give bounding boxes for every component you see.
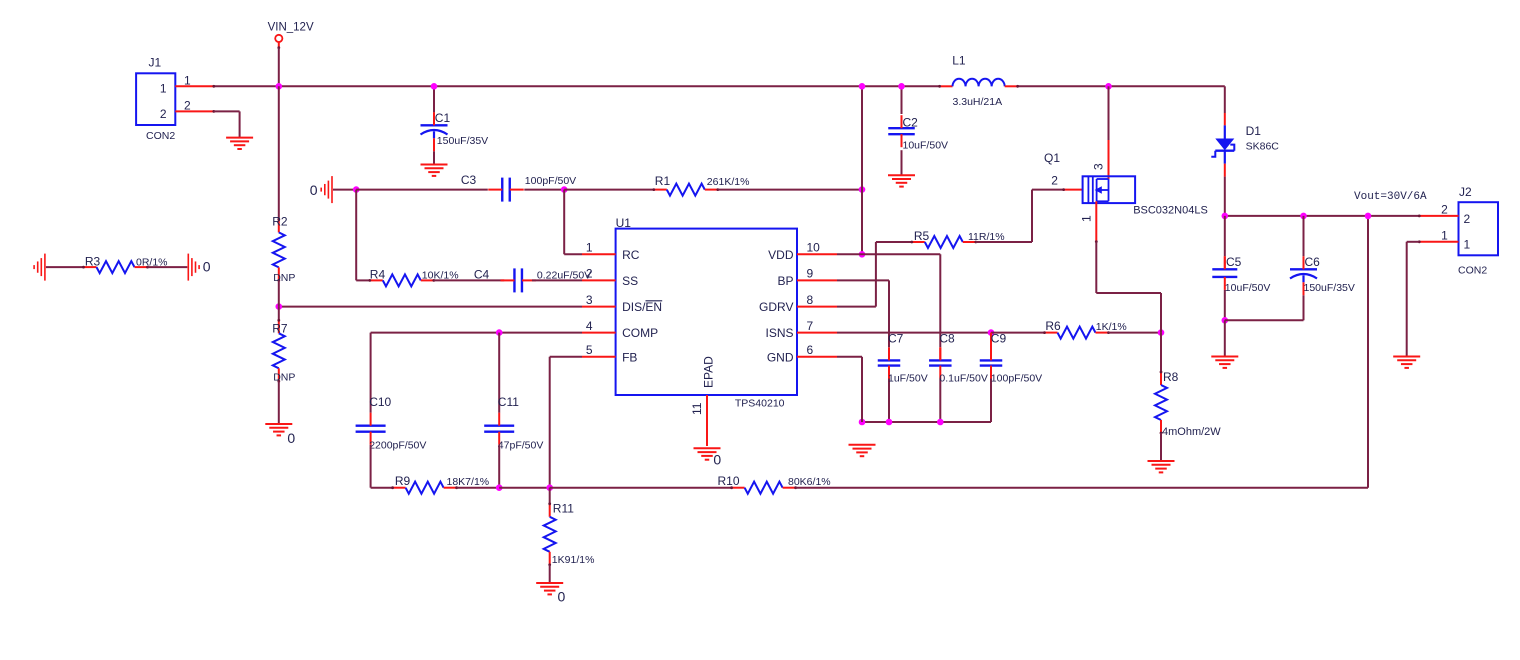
svg-text:2: 2 bbox=[160, 107, 167, 121]
svg-text:11: 11 bbox=[690, 402, 704, 415]
svg-text:Vout=30V/6A: Vout=30V/6A bbox=[1354, 191, 1427, 203]
svg-text:1K/1%: 1K/1% bbox=[1096, 321, 1127, 333]
svg-text:SK86C: SK86C bbox=[1246, 141, 1280, 153]
svg-text:2: 2 bbox=[1441, 202, 1448, 216]
svg-text:0.1uF/50V: 0.1uF/50V bbox=[939, 373, 987, 385]
svg-text:1K91/1%: 1K91/1% bbox=[552, 554, 595, 566]
svg-text:EPAD: EPAD bbox=[702, 356, 716, 388]
svg-text:C1: C1 bbox=[435, 111, 451, 125]
svg-text:BSC032N04LS: BSC032N04LS bbox=[1133, 205, 1208, 217]
svg-text:L1: L1 bbox=[952, 54, 966, 68]
svg-text:1: 1 bbox=[1441, 228, 1448, 242]
svg-text:1: 1 bbox=[1464, 238, 1471, 252]
svg-text:1: 1 bbox=[586, 241, 593, 255]
svg-text:8: 8 bbox=[807, 293, 814, 307]
svg-text:R10: R10 bbox=[718, 474, 740, 488]
svg-text:DIS/EN: DIS/EN bbox=[622, 300, 662, 314]
svg-text:C9: C9 bbox=[991, 332, 1007, 346]
svg-text:BP: BP bbox=[777, 274, 793, 288]
svg-text:C6: C6 bbox=[1305, 255, 1321, 269]
svg-text:R4: R4 bbox=[370, 267, 386, 281]
svg-text:ISNS: ISNS bbox=[765, 326, 793, 340]
svg-text:R1: R1 bbox=[655, 174, 671, 188]
svg-text:2: 2 bbox=[1464, 212, 1471, 226]
svg-text:0: 0 bbox=[558, 589, 566, 605]
svg-text:1uF/50V: 1uF/50V bbox=[888, 373, 928, 385]
svg-text:CON2: CON2 bbox=[1458, 264, 1487, 276]
svg-text:C10: C10 bbox=[369, 395, 391, 409]
svg-text:J1: J1 bbox=[149, 56, 162, 70]
svg-text:0: 0 bbox=[310, 182, 318, 198]
svg-text:GDRV: GDRV bbox=[759, 300, 793, 314]
svg-text:100pF/50V: 100pF/50V bbox=[991, 373, 1042, 385]
svg-text:R3: R3 bbox=[85, 255, 101, 269]
svg-text:47pF/50V: 47pF/50V bbox=[498, 439, 544, 451]
svg-text:R2: R2 bbox=[272, 214, 288, 228]
svg-text:2: 2 bbox=[586, 267, 593, 281]
svg-text:1: 1 bbox=[184, 73, 191, 87]
svg-text:COMP: COMP bbox=[622, 326, 658, 340]
svg-text:0: 0 bbox=[203, 258, 211, 274]
svg-text:CON2: CON2 bbox=[146, 130, 175, 142]
svg-text:2: 2 bbox=[1051, 173, 1058, 187]
svg-text:R7: R7 bbox=[272, 321, 288, 335]
svg-text:5: 5 bbox=[586, 343, 593, 357]
svg-text:RC: RC bbox=[622, 248, 640, 262]
svg-text:6: 6 bbox=[807, 343, 814, 357]
svg-text:R6: R6 bbox=[1045, 319, 1061, 333]
svg-text:DNP: DNP bbox=[273, 272, 295, 284]
svg-text:GND: GND bbox=[767, 350, 794, 364]
svg-text:0: 0 bbox=[287, 430, 295, 446]
svg-text:U1: U1 bbox=[616, 216, 632, 230]
svg-text:C2: C2 bbox=[903, 115, 919, 129]
svg-text:4: 4 bbox=[586, 319, 593, 333]
svg-text:10uF/50V: 10uF/50V bbox=[1225, 282, 1271, 294]
svg-text:R11: R11 bbox=[553, 501, 574, 515]
svg-text:3: 3 bbox=[1092, 163, 1106, 170]
svg-text:7: 7 bbox=[807, 319, 814, 333]
svg-text:100pF/50V: 100pF/50V bbox=[525, 175, 576, 187]
svg-text:261K/1%: 261K/1% bbox=[707, 176, 750, 188]
svg-text:150uF/35V: 150uF/35V bbox=[437, 135, 488, 147]
svg-text:C8: C8 bbox=[939, 332, 955, 346]
svg-text:10uF/50V: 10uF/50V bbox=[903, 139, 949, 151]
svg-text:0: 0 bbox=[713, 451, 721, 467]
svg-text:C5: C5 bbox=[1226, 255, 1242, 269]
svg-text:VIN_12V: VIN_12V bbox=[268, 21, 314, 33]
svg-text:VDD: VDD bbox=[768, 248, 794, 262]
svg-text:R8: R8 bbox=[1163, 370, 1179, 384]
svg-text:2200pF/50V: 2200pF/50V bbox=[369, 439, 426, 451]
svg-text:3.3uH/21A: 3.3uH/21A bbox=[953, 96, 1003, 108]
svg-text:4mOhm/2W: 4mOhm/2W bbox=[1162, 426, 1221, 438]
svg-text:1: 1 bbox=[160, 82, 167, 96]
svg-text:TPS40210: TPS40210 bbox=[735, 398, 785, 410]
svg-text:80K6/1%: 80K6/1% bbox=[788, 476, 831, 488]
svg-text:150uF/35V: 150uF/35V bbox=[1304, 282, 1355, 294]
svg-text:1: 1 bbox=[1080, 215, 1094, 222]
svg-text:3: 3 bbox=[586, 293, 593, 307]
svg-text:C4: C4 bbox=[474, 267, 490, 281]
svg-text:Q1: Q1 bbox=[1044, 151, 1060, 165]
svg-text:D1: D1 bbox=[1246, 124, 1262, 138]
svg-text:DNP: DNP bbox=[273, 372, 295, 384]
svg-text:2: 2 bbox=[184, 99, 191, 113]
svg-text:9: 9 bbox=[807, 267, 814, 281]
svg-text:J2: J2 bbox=[1459, 185, 1472, 199]
svg-text:FB: FB bbox=[622, 350, 637, 364]
svg-text:C11: C11 bbox=[498, 395, 519, 409]
svg-text:R9: R9 bbox=[395, 474, 411, 488]
svg-text:10: 10 bbox=[807, 241, 821, 255]
svg-text:SS: SS bbox=[622, 274, 638, 288]
svg-text:C7: C7 bbox=[888, 332, 904, 346]
svg-text:18K7/1%: 18K7/1% bbox=[447, 476, 490, 488]
svg-text:R5: R5 bbox=[914, 229, 930, 243]
svg-text:C3: C3 bbox=[461, 173, 477, 187]
